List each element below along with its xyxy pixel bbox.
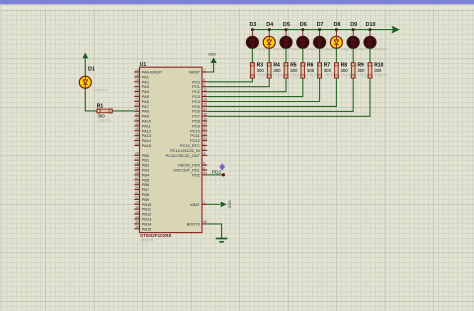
wire D9 anode: [352, 30, 354, 37]
U1 pin 41 PA8: [134, 108, 149, 114]
svg-text:54: 54: [203, 171, 207, 175]
svg-text:300: 300: [307, 68, 315, 73]
U1 pin 25 PC5: [192, 103, 207, 109]
svg-text:PC15-OSC32_OUT: PC15-OSC32_OUT: [166, 153, 201, 158]
U1 pin 49 PA14: [134, 137, 152, 143]
window title bar: [0, 0, 474, 4]
LED D4: [263, 22, 286, 52]
U1 pin 11 PC3: [192, 93, 207, 99]
svg-text:44: 44: [135, 122, 139, 126]
LED D10: [364, 22, 387, 52]
power symbol VDD (D1): [82, 53, 88, 77]
U1 pin 61 PB8: [134, 191, 149, 197]
U1 pin 5 OSCIN_PD0: [178, 161, 207, 167]
U1 pin 52 PC11: [190, 132, 207, 138]
U1 pin 36 PB15: [134, 225, 151, 231]
svg-text:D5: D5: [283, 22, 290, 28]
svg-text:15: 15: [135, 73, 139, 77]
U1 pin 60 BOOT0: [187, 220, 208, 226]
U1 pin 58 PB6: [134, 181, 149, 187]
svg-text:VBAT: VBAT: [190, 202, 200, 207]
U1 pin 7 NRST: [189, 68, 207, 74]
wire D4 anode: [268, 30, 270, 37]
U1 pin 33 PB12: [134, 210, 151, 216]
svg-text:300: 300: [290, 68, 298, 73]
LED D6: [297, 22, 320, 52]
wire R4 to PC1: [207, 78, 269, 87]
wire R3 to PC0: [207, 78, 252, 82]
svg-text:D1: D1: [88, 66, 95, 72]
svg-text:D9: D9: [350, 22, 357, 28]
node junction D8 on rail: [335, 28, 338, 31]
svg-text:29: 29: [135, 201, 139, 205]
svg-text:61: 61: [135, 191, 139, 195]
svg-text:U1: U1: [140, 62, 147, 68]
power symbol VDD (VBAT): [221, 200, 232, 208]
svg-text:2: 2: [203, 142, 205, 146]
wire R10 to PC7: [207, 78, 370, 116]
U1 pin 39 PC8: [192, 117, 207, 123]
svg-text:PB15: PB15: [142, 226, 152, 231]
wire D8 cathode to R8: [335, 48, 337, 63]
wire R9 to PC6: [207, 78, 353, 111]
svg-text:39: 39: [203, 117, 207, 121]
wire PD2: [207, 174, 223, 176]
LED D5: [280, 22, 303, 52]
wire D4 cathode to R4: [268, 48, 270, 63]
wire D6 cathode to R6: [302, 48, 304, 63]
svg-text:62: 62: [135, 196, 139, 200]
wire D5 anode: [285, 30, 287, 37]
U1 pin 59 PB7: [134, 186, 149, 192]
wire BOOT0 to ground: [207, 224, 221, 238]
svg-text:11: 11: [203, 93, 207, 97]
LED D3: [246, 22, 269, 52]
U1 pin 44 PA11: [134, 122, 150, 128]
U1 pin 14 PA0-WKUP: [134, 68, 162, 74]
svg-text:8: 8: [203, 78, 205, 82]
svg-text:D3: D3: [249, 22, 256, 28]
resistor R3 300: [250, 63, 270, 78]
wire D3 cathode to R3: [251, 48, 253, 63]
svg-text:49: 49: [135, 137, 139, 141]
wire VCC rail (LED anode bus): [252, 29, 394, 31]
U1 pin 24 PC4: [192, 98, 207, 104]
wire D5 cathode to R5: [285, 48, 287, 63]
resistor R1 300: [97, 104, 112, 123]
LED D9: [347, 22, 370, 52]
node junction D6 on rail: [302, 28, 305, 31]
svg-text:55: 55: [135, 166, 139, 170]
ground: [216, 239, 228, 242]
U1 pin 30 PB11: [134, 206, 151, 212]
resistor R8 300: [334, 63, 354, 78]
U1 pin 46 PA13: [134, 132, 151, 138]
U1 pin 17 PA3: [134, 83, 149, 89]
svg-text:20: 20: [135, 88, 139, 92]
U1 pin 4 PC15-OSC32_OUT: [166, 152, 208, 158]
svg-text:PD2: PD2: [192, 172, 200, 177]
svg-text:VDD: VDD: [228, 200, 232, 208]
svg-text:45: 45: [135, 127, 139, 131]
svg-text:28: 28: [135, 161, 139, 165]
svg-text:17: 17: [135, 83, 139, 87]
svg-text:<TEXT>: <TEXT>: [140, 238, 155, 243]
wire D10 anode: [369, 30, 371, 37]
resistor R5 300: [284, 63, 304, 78]
wire R1 to PA8: [112, 110, 134, 112]
LED D7: [314, 22, 337, 52]
svg-text:PA15: PA15: [142, 143, 151, 148]
svg-text:38: 38: [203, 112, 207, 116]
svg-text:43: 43: [135, 117, 139, 121]
svg-text:33: 33: [135, 210, 139, 214]
wire R5 to PC2: [207, 78, 286, 92]
U1 pin 9 PC1: [192, 83, 207, 89]
node junction D4 on rail: [268, 28, 271, 31]
U1 pin 57 PB5: [134, 176, 149, 182]
svg-text:51: 51: [203, 127, 207, 131]
U1 pin 53 PC12: [190, 137, 207, 143]
U1 pin 28 PB2: [134, 161, 149, 167]
LED D1: [79, 66, 107, 92]
U1 pin 2 PC13_RTC: [180, 142, 207, 148]
U1 pin 3 PC14-OSC32_IN: [170, 147, 207, 153]
U1 pin 21 PA5: [134, 93, 149, 99]
wire NRST to VDD: [207, 63, 213, 72]
svg-text:59: 59: [135, 186, 139, 190]
svg-text:30: 30: [135, 206, 139, 210]
node PD2 terminal: [212, 169, 225, 176]
resistor R7 300: [318, 63, 338, 78]
svg-text:BOOT0: BOOT0: [187, 221, 201, 226]
svg-text:300: 300: [257, 68, 265, 73]
svg-text:21: 21: [135, 93, 139, 97]
svg-text:25: 25: [203, 103, 207, 107]
svg-text:1: 1: [203, 201, 205, 205]
wire D6 anode: [302, 30, 304, 37]
svg-text:10: 10: [203, 88, 207, 92]
wire R8 to PC5: [207, 78, 336, 106]
svg-text:3: 3: [203, 147, 205, 151]
svg-text:D4: D4: [266, 22, 273, 28]
node junction D7 on rail: [318, 28, 321, 31]
U1 pin 54 PD2: [192, 171, 207, 177]
U1 pin 45 PA12: [134, 127, 151, 133]
svg-text:46: 46: [135, 132, 139, 136]
svg-text:300: 300: [357, 68, 365, 73]
svg-text:60: 60: [203, 220, 207, 224]
wire D8 anode: [335, 30, 337, 37]
power arrow at rail end: [392, 27, 398, 33]
svg-text:53: 53: [203, 137, 207, 141]
svg-text:56: 56: [135, 171, 139, 175]
svg-text:37: 37: [203, 108, 207, 112]
svg-text:300: 300: [374, 68, 382, 73]
resistor R4 300: [267, 63, 287, 78]
U1 pin 56 PB4: [134, 171, 150, 177]
svg-text:34: 34: [135, 215, 139, 219]
node junction D3 on rail: [251, 28, 254, 31]
svg-text:36: 36: [135, 225, 139, 229]
svg-text:24: 24: [203, 98, 207, 102]
svg-text:27: 27: [135, 157, 139, 161]
svg-text:300: 300: [341, 68, 349, 73]
U1 pin 40 PC9: [192, 122, 207, 128]
svg-text:9: 9: [203, 83, 205, 87]
svg-text:52: 52: [203, 132, 207, 136]
U1 pin 38 PC7: [192, 112, 207, 118]
svg-text:<TEXT>: <TEXT>: [374, 47, 388, 51]
U1 pin 15 PA1: [134, 73, 149, 79]
svg-text:VDD: VDD: [208, 52, 216, 56]
U1 pin 27 PB1: [134, 157, 149, 163]
node junction D10 on rail: [369, 28, 372, 31]
power symbol VDD (NRST): [208, 52, 217, 63]
svg-text:22: 22: [135, 98, 139, 102]
svg-text:5: 5: [203, 161, 205, 165]
origin marker diamond: [219, 163, 225, 170]
window left edge: [0, 4, 2, 311]
resistor R6 300: [301, 63, 321, 78]
svg-text:58: 58: [135, 181, 139, 185]
node junction D9 on rail: [352, 28, 355, 31]
svg-text:D10: D10: [366, 22, 376, 28]
U1 pin 50 PA15: [134, 142, 151, 148]
U1 pin 20 PA4: [134, 88, 149, 94]
U1 pin 34 PB13: [134, 215, 151, 221]
svg-text:<TEXT>: <TEXT>: [374, 73, 388, 77]
wire D9 cathode to R9: [352, 48, 354, 63]
LED D8: [330, 22, 353, 52]
U1 pin 23 PA7: [134, 103, 149, 109]
svg-text:14: 14: [135, 68, 139, 72]
svg-text:PD2: PD2: [212, 169, 222, 175]
wire R6 to PC3: [207, 78, 303, 96]
svg-text:NRST: NRST: [189, 70, 200, 75]
wire D3 anode: [251, 30, 253, 37]
MCU U1 body: [140, 62, 203, 233]
svg-text:7: 7: [203, 68, 205, 72]
U1 pin 43 PA10: [134, 117, 152, 123]
U1 pin 51 PC10: [190, 127, 207, 133]
svg-text:<TEXT>: <TEXT>: [94, 89, 108, 93]
U1 pin 6 OSCOUT_PD1: [173, 166, 207, 172]
svg-text:40: 40: [203, 122, 207, 126]
U1 pin 10 PC2: [192, 88, 207, 94]
U1 pin 37 PC6: [192, 108, 207, 114]
svg-text:D7: D7: [317, 22, 324, 28]
svg-text:35: 35: [135, 220, 139, 224]
svg-text:D6: D6: [300, 22, 307, 28]
svg-text:42: 42: [135, 112, 139, 116]
svg-text:<TEXT>: <TEXT>: [98, 119, 112, 123]
resistor R10 300: [368, 63, 388, 78]
svg-text:41: 41: [135, 108, 139, 112]
svg-text:4: 4: [203, 152, 205, 156]
resistor R9 300: [351, 63, 371, 78]
svg-text:50: 50: [135, 142, 139, 146]
svg-text:R1: R1: [97, 104, 104, 110]
U1 pin 1 VBAT: [190, 201, 207, 207]
U1 pin 42 PA9: [134, 112, 149, 118]
wire D7 anode: [319, 30, 321, 37]
U1 pin 35 PB14: [134, 220, 152, 226]
wire D10 cathode to R10: [369, 48, 371, 63]
U1 pin 62 PB9: [134, 196, 149, 202]
svg-text:23: 23: [135, 103, 139, 107]
svg-text:6: 6: [203, 166, 205, 170]
node junction D5 on rail: [285, 28, 288, 31]
wire R7 to PC4: [207, 78, 319, 101]
svg-text:300: 300: [324, 68, 332, 73]
U1 pin 16 PA2: [134, 78, 149, 84]
U1 pin 22 PA6: [134, 98, 149, 104]
toolbar highlight band: [0, 4, 474, 5]
U1 pin 8 PC0: [192, 78, 207, 84]
svg-text:300: 300: [98, 114, 106, 119]
wire VBAT to VDD: [207, 203, 221, 205]
U1 pin 26 PB0: [134, 152, 150, 158]
wire D7 cathode to R7: [319, 48, 321, 63]
U1 value label STM32F102R8: [140, 233, 172, 243]
svg-text:26: 26: [135, 152, 139, 156]
svg-text:300: 300: [273, 68, 281, 73]
U1 pin 55 PB3: [134, 166, 149, 172]
U1 pin 29 PB10: [134, 201, 152, 207]
svg-text:57: 57: [135, 176, 139, 180]
wire D1 cathode to R1: [85, 88, 97, 111]
svg-text:D8: D8: [333, 22, 340, 28]
svg-text:16: 16: [135, 78, 139, 82]
